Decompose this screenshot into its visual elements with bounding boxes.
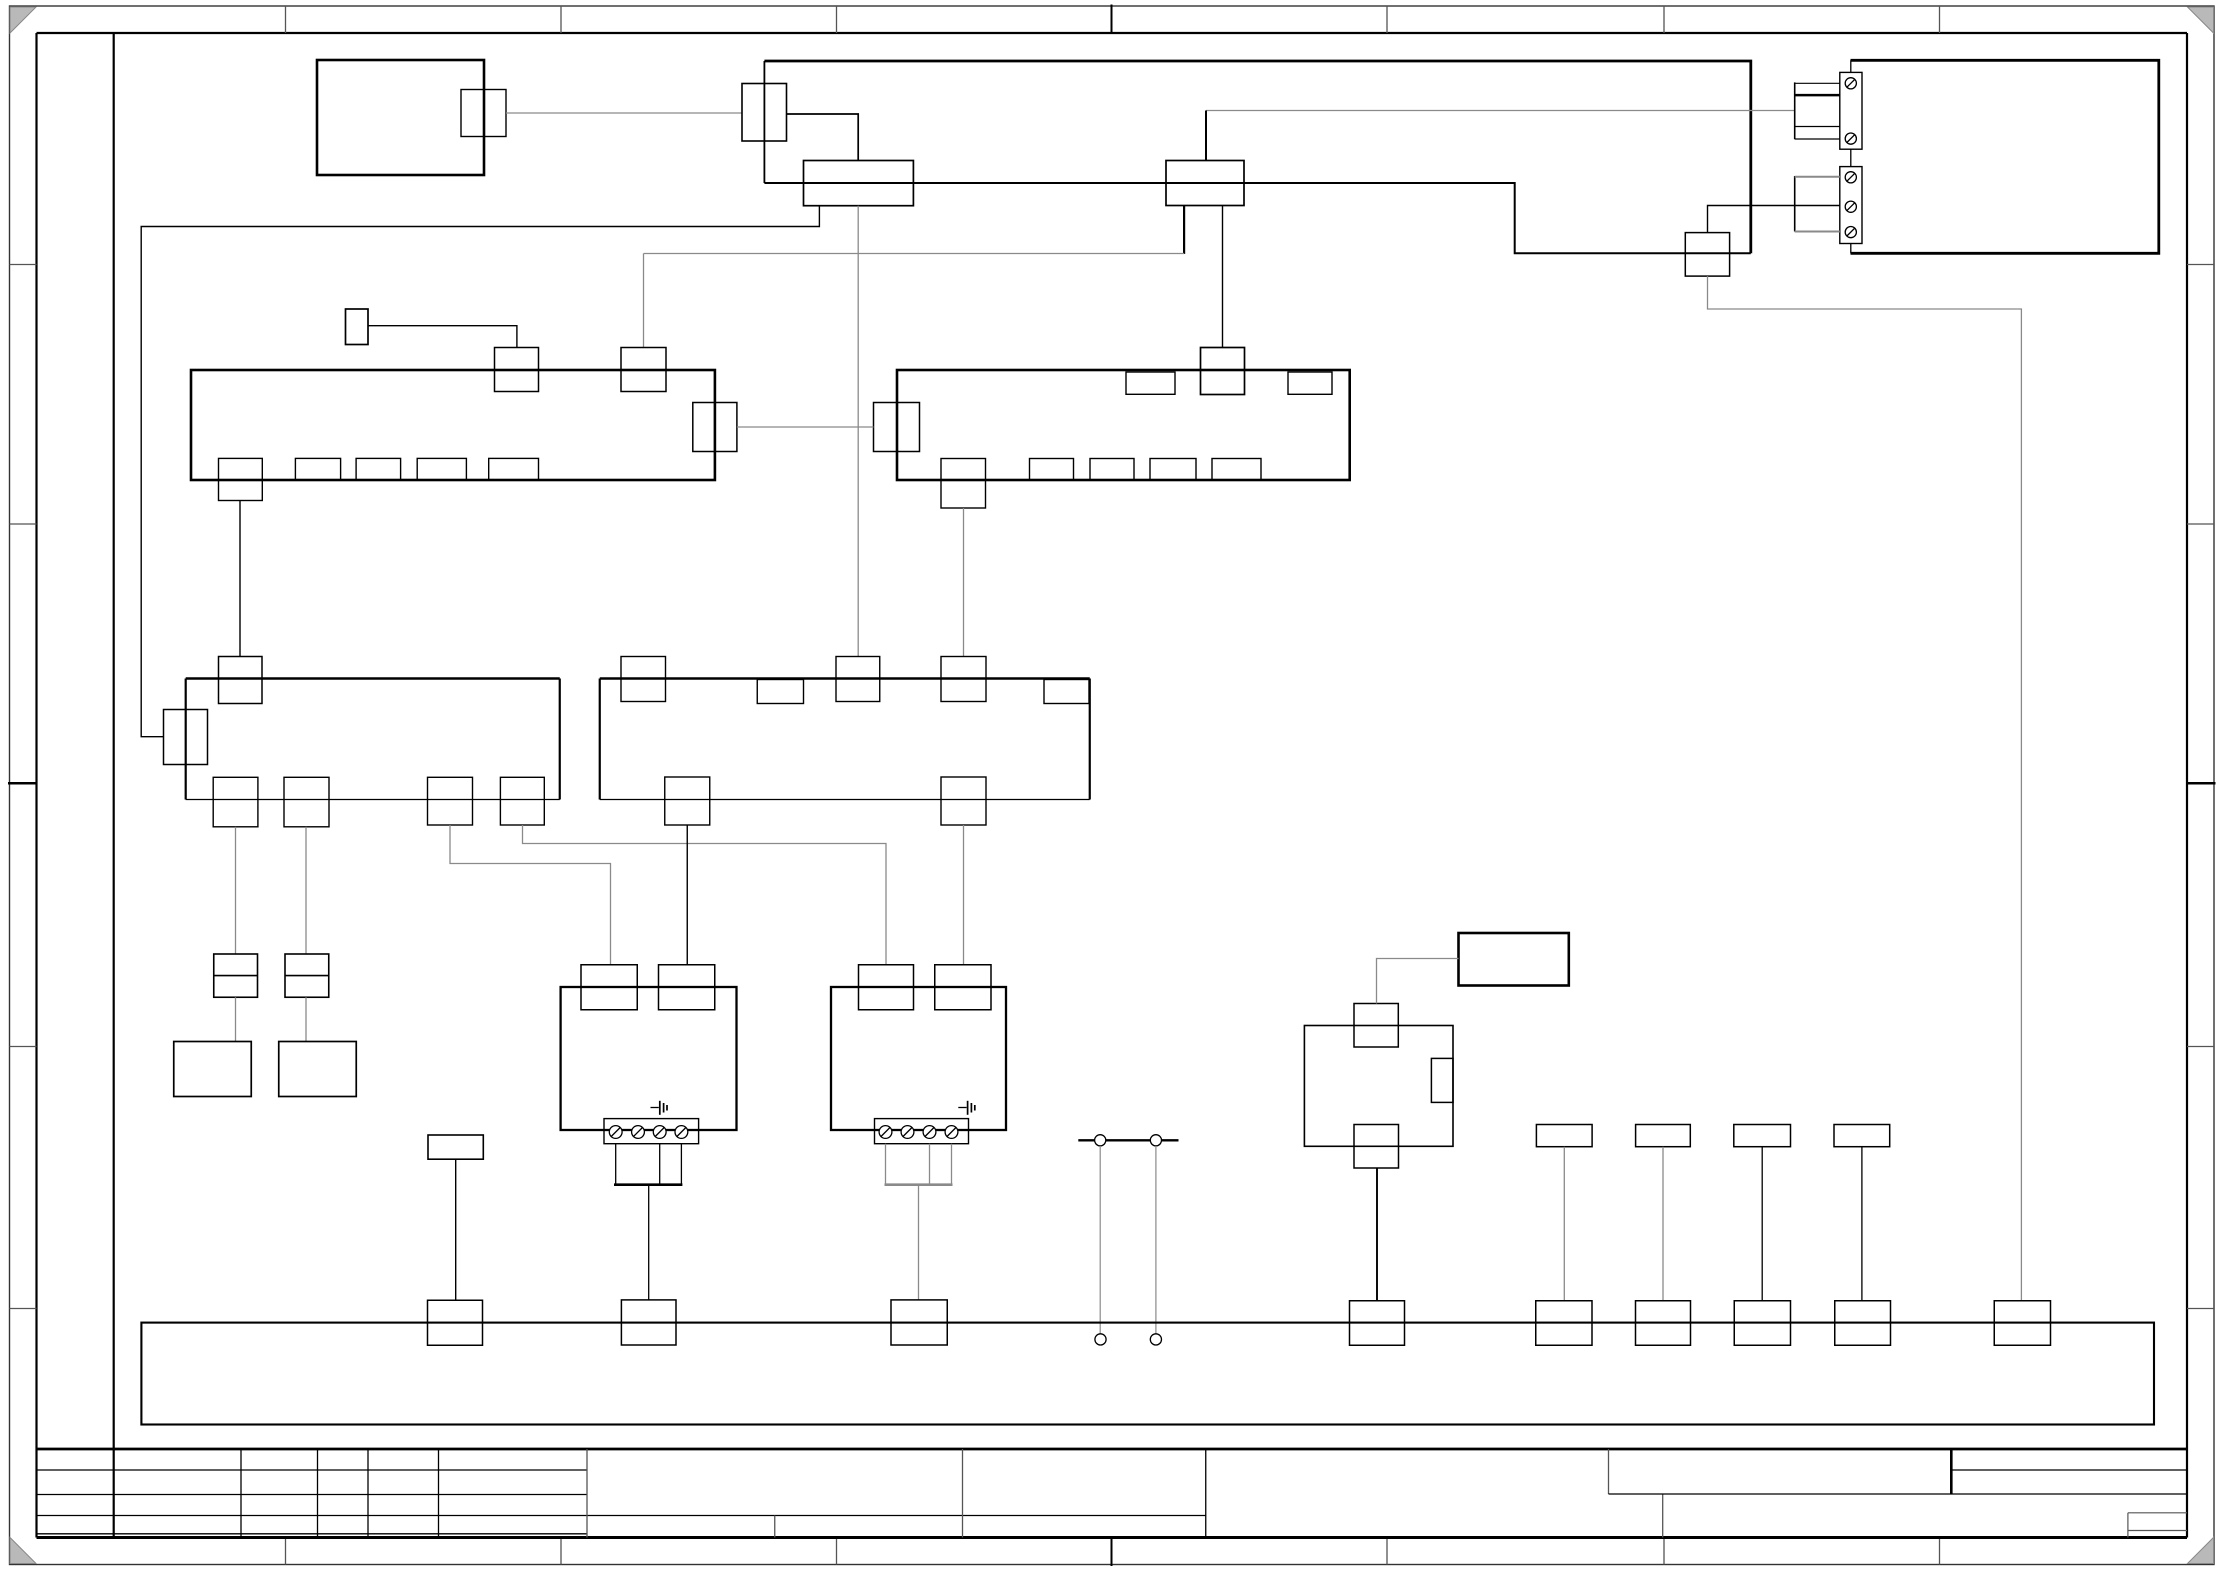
wire S4-4 drop bbox=[951, 1144, 953, 1185]
connector E on box B edge bbox=[742, 84, 787, 142]
connector D bbox=[1166, 161, 1244, 206]
test point circle TP4 bbox=[1150, 1334, 1161, 1345]
connector E1 on box A bbox=[461, 90, 506, 137]
wire J1 to J2 bbox=[737, 426, 874, 428]
bus connector BC1 straddling bbox=[428, 1300, 483, 1345]
wire TP1 drop bbox=[1099, 1146, 1101, 1334]
relay box L3b bbox=[831, 987, 1006, 1130]
stub D to gray bus bbox=[1183, 206, 1185, 254]
wire S4-3 drop bbox=[929, 1144, 931, 1185]
reference column line bbox=[113, 33, 115, 1538]
lamp rect LP4 bbox=[1834, 1125, 1890, 1147]
wire L3a to bus connector bbox=[648, 1185, 650, 1300]
terminal strip S1 bbox=[1840, 72, 1862, 149]
title block row line 2 left bbox=[37, 1494, 588, 1496]
relay box L3a bbox=[561, 987, 737, 1130]
bottom border zone tick 5 bbox=[1663, 1539, 1665, 1565]
title block column j lower bbox=[1662, 1494, 1664, 1538]
screw S3-4 bbox=[675, 1126, 688, 1139]
connector L1-B5 bbox=[489, 458, 539, 480]
title block row right mid bbox=[1609, 1493, 2188, 1495]
screw S4-3 bbox=[923, 1126, 936, 1139]
plug bracket P-upper vertical bbox=[1794, 82, 1796, 139]
plug bracket P-upper pin 1 bbox=[1795, 82, 1840, 84]
screw S1-2 bbox=[1845, 133, 1856, 144]
connector L1-B2 bbox=[295, 458, 340, 480]
bottom border zone tick 4 bbox=[1386, 1539, 1388, 1565]
connector L2b-B1 straddling bbox=[665, 777, 710, 825]
component box L2a bbox=[186, 679, 560, 800]
corner trim triangle top-left bbox=[10, 7, 36, 33]
screw S4-1 bbox=[879, 1126, 892, 1139]
left border zone tick 4 bbox=[10, 1308, 37, 1310]
component box BB1 bbox=[174, 1042, 252, 1097]
corner trim triangle bottom-right bbox=[2188, 1538, 2214, 1564]
terminal square W bbox=[346, 309, 369, 345]
wire L1-B1 to H bbox=[239, 501, 241, 657]
wire bus down to T2 bbox=[643, 254, 645, 348]
wire K3 to bus connector bbox=[1376, 1168, 1378, 1301]
wire LP3 drop bbox=[1761, 1147, 1763, 1301]
connector L2a-B1 straddling bbox=[213, 777, 258, 827]
test point circle TP3 bbox=[1095, 1334, 1106, 1345]
screw S4-4 bbox=[945, 1126, 958, 1139]
lamp rect LP1 bbox=[1536, 1125, 1592, 1147]
title block row line 1 left bbox=[37, 1469, 588, 1471]
wire L2a-B1 to fuse F1 bbox=[235, 827, 237, 954]
wire bracket to D corner bbox=[1206, 110, 1795, 112]
top border zone tick 5 bbox=[1663, 6, 1665, 33]
inner frame right edge bbox=[2186, 33, 2188, 1538]
connector K2 on N right edge bbox=[1431, 1058, 1453, 1102]
ground symbol in L3b bbox=[958, 1101, 975, 1115]
wire S3-3 drop bbox=[659, 1144, 661, 1185]
screw S4-2 bbox=[901, 1126, 914, 1139]
jumper bar bbox=[1078, 1139, 1178, 1141]
corner trim triangle bottom-left bbox=[10, 1538, 36, 1564]
bus connector BC5 straddling bbox=[1536, 1301, 1592, 1346]
gray bus wire bbox=[644, 253, 1185, 255]
harness box B left edge bbox=[763, 61, 765, 183]
top border zone tick 6 bbox=[1939, 6, 1941, 33]
screw strip S3 on L3a bbox=[604, 1119, 699, 1144]
connector L2a-B2 straddling bbox=[284, 777, 329, 827]
plug bracket P-upper pin 3 bbox=[1795, 126, 1840, 128]
connector C bbox=[804, 161, 914, 206]
title block column e bbox=[586, 1449, 588, 1538]
title block small cell row 1 bbox=[2128, 1512, 2187, 1514]
title block column i upper bbox=[1608, 1449, 1610, 1494]
wire E to C bbox=[787, 114, 859, 161]
merge bar under L3a bbox=[614, 1183, 682, 1186]
plug bracket P-lower vertical bbox=[1794, 176, 1796, 232]
connector L2b-T2 bbox=[757, 680, 803, 704]
title block small cell divider bbox=[2127, 1513, 2129, 1538]
connector L2b-T4 straddling bbox=[941, 657, 986, 702]
connector M-T2 straddling bbox=[1201, 348, 1245, 395]
top border zone tick 4 bbox=[1386, 6, 1388, 33]
fuse F2 bbox=[285, 954, 329, 997]
wire LP4 drop bbox=[1861, 1147, 1863, 1301]
stub S2 to R bottom bbox=[1850, 244, 1852, 254]
left border zone tick 1 bbox=[10, 264, 37, 266]
left border zone tick 2 bbox=[10, 523, 37, 525]
screw S2-2 bbox=[1845, 201, 1856, 212]
title block small cell row 2 bbox=[2128, 1530, 2187, 1532]
wire L2b-B2 to L3b right connector bbox=[963, 825, 965, 965]
plug bracket P-lower pin 3 bbox=[1795, 231, 1840, 233]
wire corner down into D bbox=[1205, 111, 1207, 161]
test point circle TP2 bbox=[1150, 1135, 1161, 1146]
connector T1 on L1 top bbox=[495, 348, 539, 392]
wire C down to J3 bbox=[857, 206, 859, 657]
merge bar under L3b bbox=[885, 1183, 953, 1186]
wire E1 to E bbox=[506, 112, 742, 114]
connector L3b-T1 straddling bbox=[859, 965, 914, 1010]
right border zone tick 4 bbox=[2187, 1308, 2214, 1310]
title block column f partial bbox=[774, 1516, 776, 1538]
screw S3-3 bbox=[653, 1126, 666, 1139]
plug bracket P-upper pin 2 heavy bbox=[1795, 94, 1841, 97]
bus connector BC7 straddling bbox=[1734, 1301, 1790, 1346]
title block row line 4 left bbox=[37, 1533, 588, 1535]
top border centre mark bbox=[1111, 5, 1113, 34]
right border centre mark bbox=[2187, 782, 2216, 785]
harness box B lower outline bbox=[764, 183, 1750, 253]
title block column b bbox=[317, 1449, 319, 1538]
title block row line 3 long bbox=[37, 1515, 1206, 1517]
bus connector BC2 straddling bbox=[621, 1300, 676, 1345]
bottom border centre mark bbox=[1111, 1539, 1113, 1566]
component box R1 bbox=[1459, 933, 1569, 986]
title block top rule bbox=[37, 1448, 2188, 1451]
wire LP1 drop bbox=[1563, 1147, 1565, 1301]
wire R1 to K1 bbox=[1377, 959, 1459, 1004]
connector M-T3 bbox=[1288, 372, 1332, 394]
wire L2a-B2 to fuse F2 bbox=[305, 827, 307, 954]
connector L1-B1 straddling bbox=[219, 458, 263, 500]
fuse F1 bbox=[214, 954, 258, 997]
wire L2b-B1 to L3a right connector bbox=[686, 825, 688, 965]
screw S1-1 bbox=[1845, 78, 1856, 89]
connector T2 on L1 top bbox=[621, 348, 666, 392]
wire LP2 drop bbox=[1662, 1147, 1664, 1301]
connector L2b-T5 bbox=[1044, 680, 1089, 704]
connector L2b-T1 straddling bbox=[621, 657, 666, 702]
left border centre mark bbox=[8, 782, 37, 785]
wire P1 to bus connector bbox=[455, 1159, 457, 1300]
connector L3a-T1 straddling bbox=[581, 965, 637, 1010]
plug bracket P-lower pin 1 bbox=[1795, 176, 1840, 178]
stub S1 to S2 bbox=[1850, 149, 1852, 166]
wire L2a-B4 to L3b left connector bbox=[523, 825, 887, 965]
component box A bbox=[317, 60, 484, 175]
screw strip S4 on L3b bbox=[875, 1119, 969, 1144]
connector J3 straddling bbox=[836, 657, 880, 702]
connector M-B4 bbox=[1150, 459, 1196, 481]
connector L2a-B3 straddling bbox=[428, 777, 473, 825]
wire S4-1 drop bbox=[885, 1144, 887, 1185]
title block column d bbox=[438, 1449, 440, 1538]
wire F1 to battery box BB1 bbox=[235, 997, 237, 1041]
terminal strip S2 bbox=[1840, 167, 1862, 244]
lamp rect LP2 bbox=[1636, 1125, 1691, 1147]
connector L2a-B4 straddling bbox=[500, 777, 544, 825]
bus connector BC4 straddling bbox=[1350, 1301, 1405, 1346]
component box R bbox=[1851, 60, 2159, 253]
bus connector BC8 straddling bbox=[1835, 1301, 1891, 1346]
top border zone tick 3 bbox=[836, 6, 838, 33]
top border zone tick 2 bbox=[560, 6, 562, 33]
wire D down to M connector bbox=[1222, 206, 1224, 348]
title block heavy divider bbox=[1950, 1449, 1953, 1494]
wire F to far bus connector bbox=[1708, 276, 2022, 1301]
connector J2 on M left edge bbox=[874, 403, 920, 452]
screw S2-1 bbox=[1845, 172, 1856, 183]
connector L2b-B2 straddling bbox=[941, 777, 986, 825]
wire C to connector G chain bbox=[141, 206, 819, 737]
bottom border zone tick 2 bbox=[560, 1539, 562, 1565]
connector M-B2 bbox=[1030, 459, 1074, 481]
wire F2 to battery box BB2 bbox=[305, 997, 307, 1041]
connector M-B3 bbox=[1090, 459, 1134, 481]
corner trim triangle top-right bbox=[2188, 7, 2214, 33]
connector M-B1 straddling bbox=[941, 459, 986, 509]
wire L3b to bus connector bbox=[918, 1185, 920, 1300]
connector L1-B4 bbox=[417, 458, 466, 480]
plug bracket P-upper pin 4 bbox=[1795, 138, 1840, 140]
right border zone tick 3 bbox=[2187, 1046, 2214, 1048]
title block row right top bbox=[1951, 1469, 2187, 1471]
title block column g bbox=[962, 1449, 964, 1538]
connector H on L2a top bbox=[219, 657, 263, 704]
component box L2b bbox=[600, 679, 1090, 800]
bus connector BC9 straddling bbox=[1994, 1301, 2050, 1346]
bottom border zone tick 3 bbox=[836, 1539, 838, 1565]
bottom border zone tick 6 bbox=[1939, 1539, 1941, 1565]
inner frame top edge bbox=[37, 32, 2188, 34]
wire S3-1 drop bbox=[615, 1144, 617, 1185]
screw S3-1 bbox=[609, 1126, 622, 1139]
component box L1 bbox=[191, 370, 715, 480]
bus connector BC6 straddling bbox=[1636, 1301, 1691, 1346]
connector K3 on N bottom bbox=[1354, 1125, 1399, 1169]
bottom border zone tick 1 bbox=[285, 1539, 287, 1565]
title block column h bbox=[1205, 1449, 1207, 1538]
lamp rect LP3 bbox=[1734, 1125, 1791, 1147]
stub R top to S1 bbox=[1850, 60, 1852, 72]
bus box bbox=[141, 1323, 2154, 1425]
connector J1 on L1 right edge bbox=[693, 403, 737, 452]
component box BB2 bbox=[279, 1042, 357, 1097]
wire M-B1 down to L2b bbox=[963, 508, 965, 657]
wire F to lower strip bbox=[1708, 206, 1840, 233]
wire L2a-B3 to L3a left connector bbox=[450, 825, 611, 965]
ground symbol in L3a bbox=[651, 1101, 668, 1115]
connector L3b-T2 straddling bbox=[935, 965, 991, 1010]
bus connector BC3 straddling bbox=[891, 1300, 947, 1345]
harness box B upper outline bbox=[764, 61, 1750, 253]
connector M-T1 bbox=[1126, 372, 1175, 394]
connector M-B5 bbox=[1212, 459, 1261, 481]
screw S3-2 bbox=[632, 1126, 645, 1139]
title block column a bbox=[240, 1449, 242, 1538]
terminal P1 bbox=[428, 1135, 483, 1159]
connector K1 on N top bbox=[1354, 1004, 1398, 1048]
right border zone tick 1 bbox=[2187, 264, 2214, 266]
right border zone tick 2 bbox=[2187, 523, 2214, 525]
test point circle TP1 bbox=[1095, 1135, 1106, 1146]
left border zone tick 3 bbox=[10, 1046, 37, 1048]
connector F bbox=[1685, 233, 1729, 277]
top border zone tick 1 bbox=[285, 6, 287, 33]
title block column c bbox=[367, 1449, 369, 1538]
component box M bbox=[897, 370, 1350, 480]
wire TP2 drop bbox=[1155, 1146, 1157, 1334]
inner frame bottom edge (title block bottom) bbox=[37, 1536, 2188, 1539]
screw S2-3 bbox=[1845, 227, 1856, 238]
connector G on L2a left edge bbox=[164, 710, 208, 765]
connector L3a-T2 straddling bbox=[659, 965, 715, 1010]
wire S3-4 drop bbox=[680, 1144, 682, 1185]
wire W to T1 bbox=[368, 326, 517, 348]
connector L1-B3 bbox=[356, 458, 401, 480]
inner frame left edge bbox=[35, 33, 37, 1538]
component box N bbox=[1304, 1026, 1453, 1147]
